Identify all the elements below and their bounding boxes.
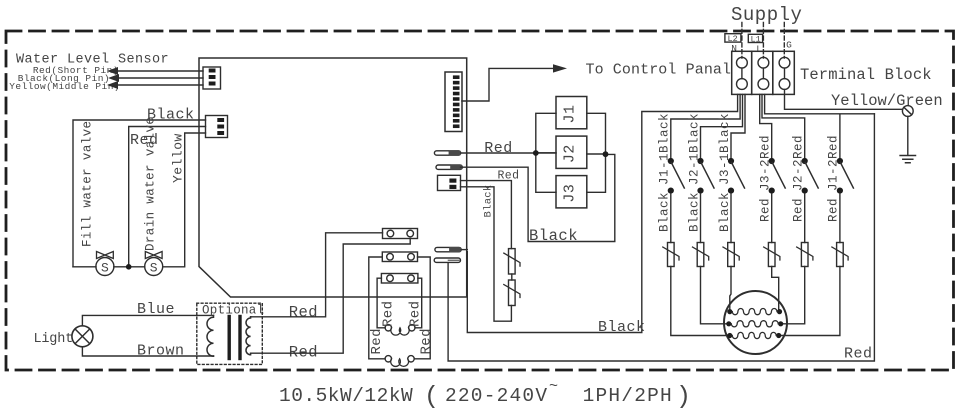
wire switch 4 to thermal fuse: [771, 194, 773, 243]
label Red lower (vertical): [792, 198, 806, 222]
svg-text:Red: Red: [759, 198, 773, 222]
svg-text:~: ~: [549, 378, 558, 395]
wire sensor pin 1: [116, 70, 203, 72]
relay K3 coil loop (inner): [377, 278, 422, 328]
terminal circles x=784.5: [779, 57, 790, 68]
water level sensor title: [16, 53, 169, 68]
label J2-2Red (vertical): [792, 135, 806, 191]
terminal circles x=741.9: [737, 57, 748, 68]
label Yellow/Green: [831, 92, 943, 110]
label Brown: [137, 343, 185, 360]
heater coil row y=323.8: [726, 321, 731, 326]
wire valve bottom bus: [73, 266, 145, 268]
relay contact bar K3: [381, 274, 418, 284]
wire black P2 loop to J-bus right: [461, 154, 615, 241]
svg-text:Black: Black: [718, 192, 732, 232]
junction J-bus right: [603, 151, 609, 157]
label Red secondary bottom: [289, 344, 318, 362]
label Blue: [137, 301, 175, 318]
svg-text:Red: Red: [289, 304, 318, 322]
svg-text:Red: Red: [407, 301, 423, 327]
terminal pill P3: [435, 247, 461, 251]
wire switch 6 to thermal fuse: [839, 194, 841, 243]
svg-text:Yellow/Green: Yellow/Green: [831, 92, 943, 110]
svg-text:Blue: Blue: [137, 301, 175, 318]
svg-text:S: S: [101, 261, 109, 276]
wire black CN3 return: [461, 187, 512, 321]
sensor pin label Black(Long Pin): [18, 73, 110, 84]
svg-text:Light: Light: [34, 332, 74, 347]
wire TF3 to heater: [730, 267, 731, 310]
supply wire L2 (dashed): [741, 23, 743, 59]
junction J-bus left: [533, 150, 539, 156]
connector CN4 control panel multi-pin: [445, 72, 462, 132]
lamp L1: [72, 326, 93, 347]
terminal circles x=763.4: [758, 57, 769, 68]
wire sensor pin 3: [116, 84, 203, 86]
wire switch 5 to thermal fuse: [804, 194, 806, 243]
svg-text:Yellow: Yellow: [171, 133, 186, 183]
wire brown: [82, 347, 213, 356]
wire TF2 to heater: [701, 267, 727, 324]
connector CN2 valves 3-pin: [206, 116, 228, 138]
thermal fuse TF1: [668, 243, 675, 267]
label Red lower (vertical): [759, 198, 773, 222]
terminal pill P2 (Black): [436, 165, 462, 169]
thermal fuse TF5: [801, 243, 808, 267]
relay contact bar K2: [382, 252, 417, 262]
wire switch 2 to thermal fuse: [700, 194, 702, 243]
svg-text:Yellow(Middle Pin): Yellow(Middle Pin): [9, 81, 120, 92]
label J1-2Red (vertical): [827, 135, 841, 191]
wire F1-F2: [511, 274, 513, 280]
fill water valve label: [81, 121, 95, 247]
heater element HTR (circle with 3 coils): [724, 291, 787, 354]
supply wire L1 (dashed): [762, 23, 764, 59]
svg-text:Black: Black: [687, 192, 701, 232]
wire J-bus right: [587, 113, 606, 192]
svg-text:J1: J1: [562, 104, 579, 123]
fill water valve V1: [96, 258, 114, 276]
tag L2: [725, 34, 741, 42]
transformer secondary coil: [246, 317, 251, 355]
terminal pill P4: [434, 258, 460, 262]
relay module J1: [556, 97, 587, 129]
svg-text:Red: Red: [381, 301, 397, 327]
svg-text:Red: Red: [827, 198, 841, 222]
label To Control Panal: [586, 62, 732, 79]
label Red coil inner-left: [381, 301, 397, 327]
wire switch 3 to thermal fuse: [730, 194, 732, 243]
wire red secondary top to relay bar: [251, 233, 383, 317]
label Red coil inner-right: [407, 301, 423, 327]
wire switch 1 to thermal fuse: [670, 194, 672, 243]
wire sensor pin 2: [117, 77, 203, 79]
label Red coil outer-right: [418, 328, 434, 354]
earth terminal circle: [902, 106, 913, 117]
label Yellow (vertical): [171, 133, 186, 183]
relay module J2: [556, 136, 587, 168]
switch contact J3-2: [769, 158, 775, 164]
label Light: [34, 332, 74, 347]
wire blue: [82, 315, 213, 325]
sensor pin label Red(Short Pin): [33, 65, 119, 76]
label Supply: [731, 4, 802, 26]
thermal fuse F2: [509, 280, 516, 306]
svg-text:Terminal Block: Terminal Block: [800, 66, 932, 84]
control board outline (chamfered): [199, 58, 467, 297]
svg-text:220-240V: 220-240V: [445, 385, 548, 407]
terminal block TB1: [732, 51, 752, 94]
transformer core: [227, 317, 230, 359]
wire red CN3 to fuses: [461, 181, 512, 249]
label Terminal Block: [800, 66, 932, 84]
svg-text:Black: Black: [529, 227, 578, 245]
wire N to J2-1: [701, 94, 743, 158]
transformer T1 optional dotted box: [197, 303, 262, 364]
svg-text:Optional: Optional: [202, 304, 264, 318]
wire N to J3-1: [731, 94, 745, 158]
wire L to J1-2 and chassis right: [765, 94, 875, 158]
svg-text:): ): [676, 382, 691, 409]
switch contact J3-1: [728, 158, 734, 164]
svg-text:J1-1Black: J1-1Black: [658, 113, 672, 185]
wire P3 stub: [461, 249, 467, 251]
switch contact J1-2: [837, 158, 843, 164]
relay K2 coil loop (outer): [369, 257, 430, 359]
label G: [786, 40, 792, 51]
wire TF5 to heater: [783, 267, 804, 324]
wire N to chassis loop (Black): [467, 94, 737, 332]
wire L to J2-2: [762, 94, 805, 158]
label J1-1Black (vertical): [658, 113, 672, 185]
svg-text:Red: Red: [844, 346, 873, 363]
switch contact J2-1: [697, 158, 703, 164]
wire P4 to heater bottom bus: [448, 114, 874, 361]
switch contact J1-1: [668, 158, 674, 164]
switch contact J2-2: [802, 158, 808, 164]
sensor pin label Yellow(Middle Pin): [9, 81, 120, 92]
svg-text:J3: J3: [562, 184, 579, 203]
label N: [731, 43, 737, 54]
svg-text:S: S: [150, 261, 158, 276]
svg-text:Black: Black: [658, 192, 672, 232]
label J2-1Black (vertical): [687, 113, 701, 185]
drain water valve label: [144, 117, 158, 251]
svg-text:Red: Red: [369, 328, 385, 354]
svg-text:Red: Red: [484, 140, 513, 157]
svg-text:J2: J2: [562, 144, 579, 163]
drain water valve V2: [145, 258, 163, 276]
wire red secondary bottom to relay bar: [251, 239, 411, 354]
thermal fuse TF6: [837, 243, 844, 267]
label Red coil outer-left: [369, 328, 385, 354]
wire red: connector to drain valve loop: [129, 127, 206, 265]
wire TF4 to heater: [772, 267, 779, 310]
label Black CN3 (vertical): [483, 184, 495, 217]
svg-text:Black: Black: [483, 184, 495, 217]
svg-text:Brown: Brown: [137, 343, 185, 360]
wire TF1 to heater: [671, 267, 727, 336]
label Red: [130, 132, 159, 149]
label Red secondary top: [289, 304, 318, 322]
wire red P1 to J-bus: [461, 152, 556, 154]
wire J-bus left: [536, 113, 556, 192]
wire N to J1-1: [671, 94, 740, 158]
relay module J3: [556, 176, 587, 208]
wire yellow: connector down to drain valve: [163, 133, 206, 267]
svg-text:J1-2Red: J1-2Red: [827, 135, 841, 191]
thermal fuse TF3: [728, 243, 735, 267]
earth ground symbol: [900, 156, 915, 163]
label Red CN3: [498, 170, 520, 183]
thermal fuse TF2: [697, 243, 704, 267]
wire ground yellow/green: [785, 89, 903, 109]
caption 10.5kW/12kW (220-240V~ 1PH/2PH): [279, 378, 691, 409]
svg-text:Red: Red: [418, 328, 434, 354]
relay K2 coil: [385, 356, 391, 362]
svg-text:J3-2Red: J3-2Red: [759, 135, 773, 191]
junction valves common: [126, 264, 132, 270]
heater coil row y=311.6: [727, 309, 732, 314]
label Red bottom right: [844, 346, 873, 363]
label J3-2Red (vertical): [759, 135, 773, 191]
svg-text:J3-1Black: J3-1Black: [718, 113, 732, 185]
svg-text:10.5kW/12kW: 10.5kW/12kW: [279, 385, 413, 407]
svg-text:1PH/2PH: 1PH/2PH: [583, 385, 673, 407]
svg-text:Red: Red: [792, 198, 806, 222]
tag L1: [748, 34, 762, 42]
heater coil row y=335.5: [727, 333, 732, 338]
label Black lower (vertical): [658, 192, 672, 232]
relay K3 coil: [385, 325, 391, 331]
label Red P1: [484, 140, 513, 157]
wire to control panel arrow: [462, 68, 553, 101]
label Optional: [202, 304, 264, 318]
label Red lower (vertical): [827, 198, 841, 222]
transformer primary coil: [207, 315, 214, 356]
label Black: [147, 107, 195, 124]
svg-text:L: L: [756, 44, 762, 55]
supply wire G (dashed): [783, 23, 785, 59]
label Black chassis wire: [598, 319, 646, 336]
thermal fuse F1: [509, 249, 516, 274]
label Black (big, middle): [529, 227, 578, 245]
label Black lower (vertical): [687, 192, 701, 232]
wire TF6 to heater: [781, 267, 840, 336]
wire to earth: [907, 116, 909, 155]
label J3-1Black (vertical): [718, 113, 732, 185]
svg-text:(: (: [424, 382, 439, 409]
connector CN1 water level sensor 3-pin: [203, 67, 221, 89]
svg-text:Fill water valve: Fill water valve: [81, 121, 95, 247]
label L: [756, 44, 762, 55]
wire L to J3-2: [760, 94, 772, 158]
thermal fuse TF4: [768, 243, 775, 267]
svg-text:Black: Black: [598, 319, 646, 336]
svg-text:G: G: [786, 40, 792, 51]
relay contact bar K1: [383, 229, 418, 239]
terminal pill P1 (Red): [434, 151, 460, 155]
wire black: connector to fill valve loop: [73, 120, 206, 267]
svg-text:J2-2Red: J2-2Red: [792, 135, 806, 191]
svg-text:Drain water valve: Drain water valve: [144, 117, 158, 251]
svg-text:To Control Panal: To Control Panal: [586, 62, 732, 79]
connector CN3 2-pin: [438, 175, 461, 190]
svg-text:J2-1Black: J2-1Black: [687, 113, 701, 185]
label Black lower (vertical): [718, 192, 732, 232]
